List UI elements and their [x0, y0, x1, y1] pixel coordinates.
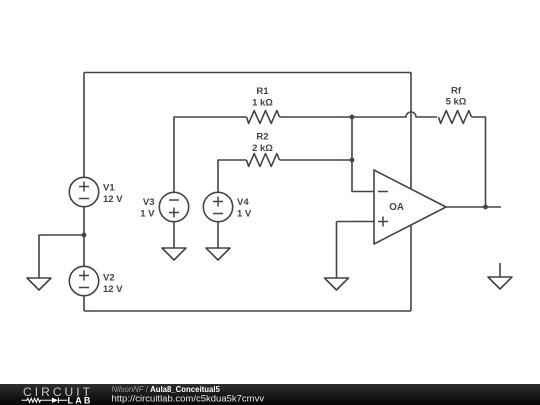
ground GND left: [27, 278, 51, 290]
svg-text:V2: V2: [103, 272, 115, 283]
op-amp OA: [374, 170, 446, 244]
svg-text:LAB: LAB: [68, 396, 93, 405]
logo resistor-diode glyph: [22, 398, 68, 403]
ground GND V3: [162, 248, 186, 260]
svg-text:V4: V4: [237, 197, 249, 208]
svg-text:12 V: 12 V: [103, 194, 123, 205]
svg-text:OA: OA: [389, 202, 404, 213]
wire R1 output with hop over supply rail: [352, 112, 437, 117]
wire inverting input: [352, 117, 374, 192]
svg-text:12 V: 12 V: [103, 284, 123, 295]
wire non-inverting input: [337, 221, 375, 223]
junction node R1/inverting: [350, 115, 355, 120]
wire op-amp plus to ground: [336, 222, 338, 279]
svg-text:R1: R1: [256, 86, 269, 97]
ground GND op-amp: [325, 278, 349, 290]
ground GND V4: [206, 248, 230, 260]
wire V2 bottom lead: [83, 296, 85, 312]
wire output: [446, 206, 501, 208]
wire V3 ground stub: [173, 222, 175, 249]
junction node V1-V2 ground tap: [82, 233, 87, 238]
wire right vertical (supply rail through op-amp): [410, 73, 412, 312]
svg-text:1 V: 1 V: [140, 208, 155, 219]
voltage source V2: [69, 266, 98, 295]
svg-text:1 V: 1 V: [237, 208, 252, 219]
svg-text:R2: R2: [256, 132, 268, 143]
junction node output/Rf: [483, 205, 488, 210]
wire top rail: [84, 72, 411, 74]
svg-text:http://circuitlab.com/c5kdua5k: http://circuitlab.com/c5kdua5k7cmvv: [112, 394, 265, 405]
wire Rf right lead down to output: [472, 117, 486, 207]
svg-text:V1: V1: [103, 182, 115, 193]
wire V1 top lead: [83, 73, 85, 178]
svg-text:V3: V3: [143, 197, 155, 208]
voltage source V1: [69, 177, 98, 206]
wire right ground stub (floating): [499, 263, 501, 277]
logo diode triangle: [52, 398, 58, 403]
ground GND right: [488, 277, 512, 289]
voltage source V3: [159, 192, 188, 221]
wire R2 right lead: [280, 159, 353, 161]
wire R1 right lead: [280, 116, 353, 118]
resistor Rf: [439, 111, 472, 124]
wire bottom rail: [84, 310, 411, 312]
svg-text:2 kΩ: 2 kΩ: [252, 143, 273, 154]
voltage source V4: [203, 192, 232, 221]
resistor R1: [247, 111, 280, 124]
wire left ground branch: [39, 235, 84, 278]
svg-text:1 kΩ: 1 kΩ: [252, 97, 273, 108]
svg-text:Rf: Rf: [451, 85, 462, 96]
wire R2 left lead to V4: [218, 160, 247, 193]
resistor R2: [247, 154, 280, 167]
junction node R2/inverting: [350, 158, 355, 163]
wire V1-V2 link: [83, 207, 85, 267]
svg-text:5 kΩ: 5 kΩ: [446, 97, 467, 108]
wire R1 left lead to V3: [174, 117, 247, 193]
wire V4 ground stub: [217, 222, 219, 249]
